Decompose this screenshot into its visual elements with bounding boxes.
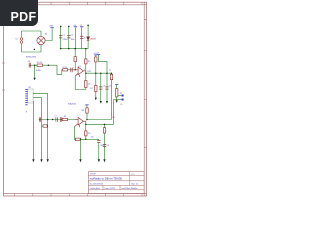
wire JP1 pin A	[33, 94, 48, 160]
wire L-feed	[98, 55, 107, 73]
svg-text:Bat: 11: Bat: 11	[132, 182, 139, 185]
wire R14 C8 column	[104, 124, 106, 159]
wire right long vertical	[111, 73, 113, 119]
wire amp1 input jog	[57, 65, 73, 74]
svg-text:100n: 100n	[100, 145, 104, 147]
junction input row tap	[47, 119, 49, 121]
svg-text:8: 8	[26, 111, 27, 113]
wire speaker to amp2 output	[113, 100, 115, 125]
title block column lines	[103, 172, 130, 190]
svg-text:LS: LS	[120, 104, 123, 106]
svg-text:22u: 22u	[91, 137, 94, 139]
frame inner bottom line	[4, 193, 147, 195]
resistor R1	[37, 64, 42, 66]
svg-text:22k: 22k	[88, 84, 91, 86]
ground C8	[103, 159, 105, 162]
wire amp2 input segment right	[87, 119, 112, 121]
ground pin B	[40, 159, 42, 162]
capacitor C8	[103, 144, 106, 146]
svg-text:1: 1	[73, 68, 74, 70]
capacitor amp2 coupling	[56, 117, 57, 121]
junction C4 rail	[106, 72, 108, 74]
wire capacitor C4 column	[106, 73, 108, 101]
svg-text:R1 22k: R1 22k	[37, 62, 43, 64]
junction diode top	[87, 25, 89, 27]
svg-text:R8: R8	[64, 116, 66, 118]
wire R6 column	[95, 55, 97, 97]
junction R14 top	[104, 124, 106, 126]
svg-text:100n: 100n	[71, 39, 75, 41]
wire R10 bottom stub	[116, 97, 118, 100]
wire amp2 input row	[39, 119, 75, 121]
junction ground tap	[34, 64, 36, 66]
svg-text:R7: R7	[90, 88, 92, 90]
svg-text:+19: +19	[73, 25, 76, 27]
capacitor amp2 coupling 2	[60, 117, 61, 121]
wire R4 feedback column	[85, 73, 87, 89]
capacitor C4	[105, 87, 108, 89]
pin stub amp2 gnd	[78, 125, 80, 127]
AC source X1	[20, 38, 22, 44]
junction R2 row	[74, 69, 76, 71]
wire capacitor C2 column	[68, 26, 70, 48]
capacitor C7	[39, 117, 40, 121]
svg-text:LasherMan: LasherMan	[90, 188, 100, 190]
wire JP1 pin B	[33, 98, 41, 160]
wire resistor input bridge stubs	[42, 125, 48, 127]
supply symbol R11 top	[85, 104, 88, 106]
supply symbol +19V	[74, 26, 77, 28]
connector JP1 body	[28, 89, 33, 103]
wire capacitor C3 column	[100, 73, 102, 101]
wire +19V column	[75, 27, 77, 48]
wire diode column upper	[87, 25, 89, 37]
junction amp2 output	[85, 124, 87, 126]
frame top ticks	[51, 2, 142, 5]
wire lower supply rail	[61, 48, 88, 50]
wire ground column amp2	[80, 139, 82, 159]
bridge rectifier B1	[37, 36, 45, 44]
capacitor C1	[59, 36, 62, 38]
junction R11 bottom	[86, 119, 88, 121]
svg-text:4: 4	[84, 69, 85, 71]
wire R2 top	[74, 49, 76, 57]
resistor R2 bias vertical	[74, 57, 76, 62]
frame inner right line	[143, 2, 145, 196]
frame right ticks	[144, 51, 146, 148]
wire R5 column up	[85, 49, 87, 71]
junction right vertical top	[111, 72, 113, 74]
svg-text:1N4007: 1N4007	[90, 39, 96, 41]
wire feedback loop amp2	[74, 127, 86, 140]
junction input row mid	[52, 119, 54, 121]
svg-text:C3: C3	[103, 86, 105, 88]
svg-text:1k: 1k	[109, 70, 111, 72]
wire R12 feedback column	[85, 124, 87, 139]
ground C4	[106, 101, 108, 104]
ground pin A	[47, 159, 49, 162]
wire diode column lower	[87, 40, 89, 48]
junction ground column amp2	[80, 139, 82, 141]
connector X2 pin 2	[122, 99, 124, 101]
svg-text:B380C3300: B380C3300	[26, 56, 36, 58]
junction loop bottom	[34, 49, 36, 51]
resistor R8	[62, 118, 67, 120]
svg-text:TITLE:: TITLE:	[90, 174, 97, 176]
capacitor C6	[97, 140, 100, 142]
wire input loop bottom	[22, 51, 42, 53]
svg-text:IC1: IC1	[78, 66, 81, 68]
svg-text:1u: 1u	[84, 38, 86, 40]
wire input loop top	[22, 30, 42, 32]
wire amp1 input row A	[29, 64, 57, 66]
junction R2 rail	[74, 48, 76, 50]
wire -19V column	[81, 27, 83, 48]
pin stub amp2 inv	[74, 124, 78, 127]
wire capacitor C1 column	[60, 26, 62, 48]
ground amp1 input	[33, 65, 35, 80]
pin stub amp2 output	[83, 120, 85, 122]
resistor R5 vertical	[85, 59, 87, 64]
op-amp IC2	[78, 117, 83, 125]
wire speaker stub 2	[114, 99, 122, 101]
wire amp2 output jog	[84, 121, 86, 124]
wire bridge bottom	[40, 45, 42, 52]
svg-text:22k: 22k	[88, 133, 91, 135]
svg-text:X1: X1	[15, 39, 17, 41]
wire input loop left lower	[21, 44, 23, 52]
PDF badge	[0, 0, 38, 26]
frame left row marks	[2, 63, 4, 90]
resistor R9 on vertical	[110, 74, 112, 79]
junction C3 rail	[100, 72, 102, 74]
junction amp1 input	[48, 64, 50, 66]
frame bottom ticks	[15, 194, 142, 196]
wire amp1 output jog	[84, 71, 86, 73]
junction feedback bottom	[85, 139, 87, 141]
supply symbol +38V	[50, 27, 53, 29]
svg-text:myRadio to DB on TDA30: myRadio to DB on TDA30	[90, 176, 123, 180]
wire R11 stubs	[86, 105, 88, 119]
svg-text:AGND: AGND	[36, 69, 41, 72]
title block row lines	[89, 175, 145, 189]
svg-text:R5: R5	[88, 61, 90, 63]
capacitor C2	[67, 36, 70, 38]
junction R5 rail	[85, 48, 87, 50]
svg-text:C5: C5	[28, 61, 30, 63]
resistor R4 feedback	[85, 81, 87, 88]
svg-text:R3 1k: R3 1k	[62, 67, 67, 69]
supply symbol L-feed	[97, 54, 100, 56]
junction C2 bottom	[68, 48, 70, 50]
svg-text:X2: X2	[120, 93, 122, 95]
svg-text:4700u: 4700u	[63, 39, 68, 41]
connector X2 pin 1	[122, 95, 124, 97]
wire bridge output right	[46, 28, 53, 40]
svg-text:C4: C4	[109, 86, 111, 88]
svg-text:Date: 6/7/15: Date: 6/7/15	[104, 187, 116, 190]
ground C3	[100, 101, 102, 104]
svg-text:Iss.B Matt Wildfire: Iss.B Matt Wildfire	[121, 187, 138, 190]
wire R2 bottom	[74, 62, 76, 70]
connector JP1 pins	[25, 89, 27, 104]
ground pin C	[32, 159, 34, 162]
resistor R14	[103, 128, 105, 133]
resistor R13 horizontal	[75, 138, 80, 140]
wire feedback right amp2	[86, 138, 99, 140]
svg-text:-19: -19	[79, 25, 82, 27]
resistor R3	[63, 69, 68, 71]
ground C6	[98, 159, 100, 162]
frame inner top line	[4, 4, 147, 6]
resistor R10 speaker vertical	[116, 89, 118, 97]
wire speaker stub 1	[118, 95, 122, 97]
pin stub amp1 gnd	[78, 75, 80, 77]
capacitor C3	[99, 87, 102, 89]
svg-text:OUT1: OUT1	[87, 71, 91, 73]
capacitor on -19 column	[80, 36, 83, 38]
svg-text:ba 24/07/2015: ba 24/07/2015	[90, 183, 104, 185]
svg-text:C8: C8	[107, 145, 109, 147]
svg-text:B1: B1	[45, 33, 47, 35]
pin stub amp1 output	[83, 70, 85, 72]
svg-text:C1: C1	[63, 35, 65, 37]
op-amp IC1	[78, 67, 83, 75]
junction C1 top	[60, 26, 62, 28]
wire bridge top	[40, 31, 42, 36]
pin stub amp1 inv	[75, 73, 78, 76]
svg-text:C7: C7	[55, 115, 57, 117]
wire amp1 output rail	[86, 72, 112, 74]
title block outline	[89, 172, 145, 194]
resistor R12 vertical feedback	[85, 131, 87, 136]
wire amp2 output rail	[86, 123, 114, 125]
pin stub amp2 input	[75, 119, 79, 121]
wire input loop left upper	[21, 31, 23, 37]
pin stub amp1 input	[73, 69, 78, 71]
svg-text:R11: R11	[81, 110, 84, 112]
supply symbol R10 top	[115, 84, 118, 86]
resistor R6 vertical	[95, 57, 97, 62]
junction C2 top	[68, 26, 70, 28]
supply symbol -19V	[80, 26, 83, 28]
resistor R7 lower vertical	[95, 86, 97, 92]
junction C1 bottom	[60, 48, 62, 50]
ground amp2	[79, 159, 81, 162]
wire capacitor C6 column	[98, 139, 100, 159]
svg-text:TDA2030: TDA2030	[68, 103, 77, 106]
capacitor amp1 coupling	[71, 68, 72, 73]
ground R10	[116, 100, 118, 103]
svg-text:C2: C2	[71, 35, 73, 37]
wire R10 top stub	[116, 85, 118, 89]
wire JP1 pin C	[32, 101, 34, 159]
svg-text:+19: +19	[96, 53, 99, 55]
diode D1	[87, 37, 90, 40]
wire feedback loop amp1	[75, 76, 86, 89]
frame outer border	[4, 2, 147, 196]
resistor input bridge	[43, 125, 47, 127]
ground R7	[95, 98, 97, 101]
junction amp1 output	[85, 72, 87, 74]
svg-text:1: 1	[106, 130, 107, 132]
capacitor C5 input	[29, 63, 30, 68]
svg-text:JP1: JP1	[28, 87, 31, 89]
resistor R11 vertical amp2	[86, 108, 88, 113]
supply symbol R6 top	[94, 54, 97, 56]
junction R6 rail	[95, 72, 97, 74]
